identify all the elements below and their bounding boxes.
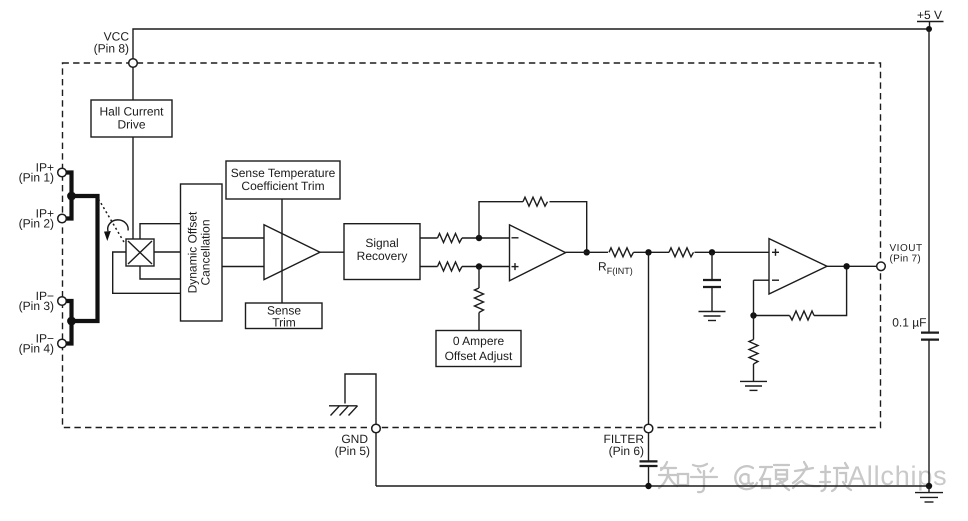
primary conductor bar IP- (thick) xyxy=(67,301,72,344)
wire A1 output xyxy=(320,251,344,253)
block 0 Ampere Offset Adjust xyxy=(436,331,521,367)
svg-text:Sense Temperature: Sense Temperature xyxy=(231,166,336,180)
terminal VCC (Pin 8) xyxy=(94,30,138,68)
resistor feedback U1 xyxy=(523,197,548,206)
block Sense Temperature Coefficient Trim xyxy=(226,161,340,199)
resistor buffer input xyxy=(669,248,694,257)
junction IP- bar xyxy=(67,317,76,326)
wire SR to R upper xyxy=(420,237,438,239)
svg-text:Cancellation: Cancellation xyxy=(199,219,213,285)
wire hall outer loop xyxy=(113,252,181,293)
svg-text:(Pin 4): (Pin 4) xyxy=(19,341,54,355)
IC boundary dashed box xyxy=(63,63,881,428)
wire GND pin to bottom rail xyxy=(375,433,377,486)
wire U2 output xyxy=(827,265,877,267)
junction filter tap xyxy=(645,249,651,255)
wire right rail (lower) xyxy=(928,340,930,486)
wire resistor to offset box xyxy=(478,313,480,331)
wire hall output mid xyxy=(154,251,181,253)
wire feedback to junction xyxy=(754,315,790,317)
wire junction down xyxy=(753,316,755,340)
junction IP+ bar xyxy=(67,192,76,201)
svg-text:Offset Adjust: Offset Adjust xyxy=(445,349,513,363)
op-amp U1 xyxy=(510,225,566,281)
svg-text:Signal: Signal xyxy=(365,236,398,250)
wire feedback up-left xyxy=(479,202,523,238)
junction filter bottom xyxy=(645,483,651,489)
svg-text:Drive: Drive xyxy=(117,118,145,132)
svg-text:Trim: Trim xyxy=(272,316,296,330)
terminal FILTER (Pin 6) xyxy=(604,424,653,458)
wire trim vertical xyxy=(281,199,283,303)
terminal GND (Pin 5) xyxy=(335,424,381,458)
wire bottom ground rail xyxy=(376,485,929,487)
amplifier A1 xyxy=(264,225,320,280)
svg-text:Hall Current: Hall Current xyxy=(99,105,164,119)
svg-text:(Pin 6): (Pin 6) xyxy=(609,444,644,458)
wire cap to ground xyxy=(711,287,713,312)
flux line (dotted) xyxy=(99,199,125,243)
capacitor internal filter xyxy=(703,280,721,287)
block Hall Current Drive xyxy=(91,100,172,137)
junction U1 output xyxy=(584,249,590,255)
svg-text:0.1 µF: 0.1 µF xyxy=(892,316,926,330)
svg-text:Dynamic Offset: Dynamic Offset xyxy=(186,211,200,293)
block Signal Recovery xyxy=(344,224,420,280)
svg-text:Recovery: Recovery xyxy=(357,249,408,263)
wire RF to junction xyxy=(634,251,670,253)
chassis ground (GND) xyxy=(329,406,358,416)
wire VCC pin to Hall Current Drive xyxy=(132,67,134,100)
wire VCC top rail xyxy=(133,29,929,59)
wire junction to minus xyxy=(753,280,755,315)
wire feedback down-right xyxy=(550,202,587,253)
resistor input upper xyxy=(438,234,463,243)
wire Hall Current Drive to hall element xyxy=(132,137,134,239)
ground (internal cap) xyxy=(699,312,726,321)
wire to internal cap xyxy=(711,252,713,279)
svg-text:F(INT): F(INT) xyxy=(607,266,633,276)
op-amp U2 buffer xyxy=(769,239,827,294)
wire U2 feedback right xyxy=(814,266,847,315)
wire filter branch down xyxy=(648,252,650,424)
terminal IP- (Pin 4) xyxy=(19,331,67,355)
wire resistor to ground xyxy=(753,364,755,381)
svg-text:+5 V: +5 V xyxy=(917,8,942,22)
wire +5V right rail (upper) xyxy=(928,29,930,332)
svg-text:R: R xyxy=(598,260,607,274)
resistor R_F(INT) xyxy=(609,248,634,257)
+5 V supply label xyxy=(917,8,944,29)
junction bottom-right xyxy=(926,483,932,489)
junction lower input xyxy=(476,263,482,269)
wire R to op-amp upper xyxy=(462,237,510,239)
primary conductor bar IP+ (thick) xyxy=(67,173,72,219)
watermark xyxy=(659,462,851,492)
wire hall loop bottom xyxy=(140,266,181,279)
wire GND riser xyxy=(345,374,376,424)
junction U2 feedback xyxy=(750,312,756,318)
junction top-right corner xyxy=(926,26,932,32)
rotation arrow xyxy=(104,220,128,241)
junction U2 output xyxy=(843,263,849,269)
svg-text:(Pin 5): (Pin 5) xyxy=(335,444,370,458)
capacitor filter external xyxy=(640,461,658,466)
resistor feedback U2 xyxy=(790,311,815,320)
primary conductor loop (thick) xyxy=(72,196,98,321)
svg-text:(Pin 7): (Pin 7) xyxy=(890,253,922,264)
block Dynamic Offset Cancellation xyxy=(181,184,223,321)
svg-text:(Pin 1): (Pin 1) xyxy=(19,170,54,184)
svg-text:Coefficient Trim: Coefficient Trim xyxy=(241,179,324,193)
wire hall loop top xyxy=(140,224,181,239)
wire SR to R lower xyxy=(420,266,438,268)
resistor offset (vertical) xyxy=(475,288,484,313)
resistor to ground (vertical) xyxy=(749,340,758,365)
terminal IP+ (Pin 2) xyxy=(19,206,67,230)
terminal VIOUT (Pin 7) xyxy=(877,243,923,271)
wire cap to bottom rail xyxy=(648,466,650,486)
wire U1 output xyxy=(566,251,608,253)
wire DOC to amp lower xyxy=(222,266,264,268)
capacitor 0.1 uF bypass xyxy=(892,316,939,340)
wire offset branch xyxy=(478,267,480,289)
junction internal cap xyxy=(709,249,715,255)
svg-text:(Pin 3): (Pin 3) xyxy=(19,299,54,313)
hall element xyxy=(126,239,154,266)
resistor input lower xyxy=(438,262,463,271)
svg-text:0 Ampere: 0 Ampere xyxy=(453,334,505,348)
wire R to op-amp lower xyxy=(462,266,510,268)
svg-text:VIOUT: VIOUT xyxy=(890,243,923,254)
wire to buffer + input xyxy=(695,251,770,253)
wire filter pin to cap xyxy=(648,433,650,461)
svg-text:(Pin 2): (Pin 2) xyxy=(19,216,54,230)
junction upper input xyxy=(476,235,482,241)
wire U2 minus input xyxy=(754,279,770,281)
svg-text:(Pin 8): (Pin 8) xyxy=(94,42,129,56)
label R_F(INT) xyxy=(598,260,633,277)
wire DOC to amp upper xyxy=(222,237,264,239)
terminal IP- (Pin 3) xyxy=(19,289,67,313)
block Sense Trim xyxy=(246,303,323,330)
terminal IP+ (Pin 1) xyxy=(19,160,67,184)
ground (U2 divider) xyxy=(740,381,767,390)
ground (supply, bottom right) xyxy=(915,486,943,502)
